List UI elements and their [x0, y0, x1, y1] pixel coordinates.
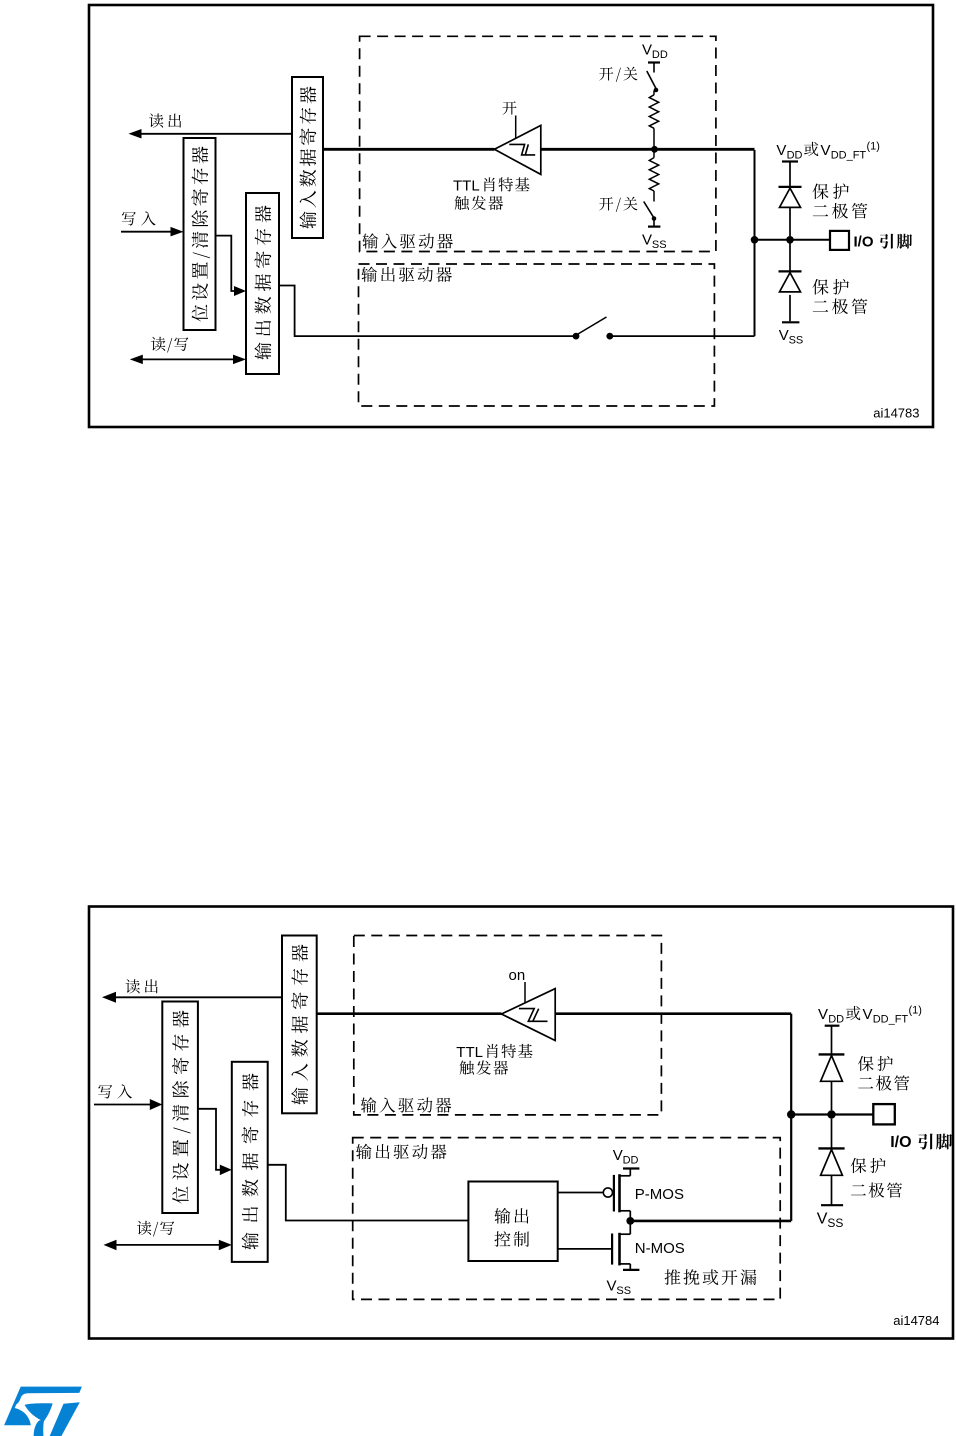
wire: schmitt trigger output to right vertical (thick) (top): [541, 148, 755, 151]
svg-text:DD: DD: [787, 149, 803, 161]
node: input line / resistor junction (top): [651, 146, 658, 153]
label: write in 写入 (top): [122, 211, 156, 225]
label: input driver 输入驱动器 (bottom): [361, 1097, 451, 1112]
label: input driver 输入驱动器 (top): [362, 233, 452, 248]
svg-text:V: V: [607, 1277, 617, 1294]
wire: I/O line to pin (bottom): [791, 1113, 873, 1115]
label: protection diode 保护二极管 (lower, top): [812, 279, 867, 314]
label: protection diode 保护二极管 (upper, bottom): [858, 1056, 909, 1091]
svg-text:V: V: [776, 142, 786, 159]
wire + arrow: write in (top): [121, 227, 184, 237]
wire: MOS output to right vertical (thick) (bottom): [630, 1220, 791, 1223]
label: push-pull or open-drain 推挽或开漏 (bottom): [665, 1269, 757, 1285]
wire + arrow: read out (top): [129, 129, 293, 139]
label: on/off 开/关 (pull-down switch, top): [599, 197, 637, 212]
power terminal VDD (diode chain, bottom): [825, 1026, 840, 1054]
power symbol VDD (pull-up, top): [642, 42, 668, 73]
power symbol VSS (N-MOS, bottom): [607, 1270, 640, 1297]
P-MOS gate bubble (bottom): [603, 1188, 612, 1197]
label: I/O pin I/O引脚 (top): [854, 234, 913, 251]
label: protection diode 保护二极管 (upper, top): [812, 183, 867, 218]
svg-text:DD_FT: DD_FT: [873, 1013, 909, 1025]
protection diode D2 (top): [779, 244, 802, 322]
block: output control 输出控制 (bottom): [468, 1182, 557, 1262]
wire + arrow: read out (bottom): [102, 992, 282, 1003]
I/O pin square (bottom): [873, 1104, 895, 1124]
wire: output data register to output control (bottom): [268, 1165, 469, 1221]
power label VDD or VDD_FT(1) (top): [776, 141, 880, 162]
register box: bit set/clear register 位设置/清除寄存器 (top): [184, 138, 216, 330]
protection diode D4 (bottom): [818, 1119, 844, 1205]
label: read/write 读/写 (top): [151, 337, 188, 353]
svg-text:TTL: TTL: [453, 177, 480, 194]
svg-text:on: on: [509, 967, 526, 984]
transistor Q2 N-MOS (bottom): [612, 1221, 630, 1270]
resistor R2 pull-down (top): [649, 149, 658, 201]
power symbol VSS (pull-down, top): [642, 219, 667, 251]
power label VDD or VDD_FT(1) (bottom): [818, 1005, 922, 1026]
wire: schmitt trigger output to right vertical (thick) (bottom): [555, 1012, 791, 1015]
svg-text:ai14784: ai14784: [893, 1313, 939, 1328]
node: diode chain junction (top): [786, 236, 794, 244]
wire: output control to P-MOS gate (bottom): [558, 1192, 604, 1194]
svg-text:(1): (1): [867, 141, 880, 153]
wire + arrow: write in (bottom): [94, 1099, 162, 1110]
dashed box: output driver (top): [359, 264, 715, 406]
svg-text:ai14783: ai14783: [873, 406, 919, 421]
power symbol VDD (P-MOS, bottom): [613, 1147, 640, 1169]
switch SW1 pull-up (top): [647, 71, 659, 92]
wire: bit-set register to output data register (bottom): [198, 1109, 232, 1175]
register box: bit set/clear register 位设置/清除寄存器 (bottom): [162, 1002, 198, 1214]
label: write in 写入 (bottom): [98, 1084, 132, 1098]
svg-text:I/O: I/O: [890, 1134, 911, 1151]
label: protection diode 保护二极管 (lower, bottom): [851, 1158, 902, 1198]
label: on/off 开/关 (pull-up switch, top): [599, 67, 637, 82]
svg-text:DD: DD: [623, 1155, 639, 1167]
schmitt trigger U2 (bottom): [501, 989, 555, 1041]
svg-text:P-MOS: P-MOS: [635, 1186, 684, 1203]
dashed box: output driver (bottom): [353, 1138, 781, 1300]
register box: input data register 输入数据寄存器 (top): [292, 77, 323, 238]
svg-text:V: V: [613, 1147, 623, 1164]
svg-text:V: V: [821, 142, 831, 159]
I/O pin square (top): [830, 231, 849, 250]
node: diode chain junction (bottom): [827, 1110, 835, 1118]
label: read/write 读/写 (bottom): [137, 1221, 174, 1237]
dashed box: input driver (bottom): [354, 936, 662, 1115]
wire: I/O line to pin (top): [755, 239, 831, 241]
svg-text:DD: DD: [652, 49, 668, 61]
wire: input data register to schmitt trigger (thick) (top): [323, 148, 494, 151]
label: on 开 (top): [503, 101, 517, 114]
label: output driver 输出驱动器 (top): [361, 267, 451, 282]
svg-text:V: V: [863, 1006, 873, 1023]
wire + double arrow: read/write (bottom): [104, 1240, 232, 1251]
schmitt trigger U1 (top): [494, 125, 540, 174]
register box: output data register 输出数据寄存器 (bottom): [232, 1062, 268, 1262]
node: bus / I/O line junction (top): [751, 236, 759, 244]
node: P-MOS/N-MOS drain junction (bottom): [626, 1217, 634, 1225]
dashed box: input driver (top): [360, 36, 716, 251]
ST Microelectronics logo: [4, 1387, 82, 1436]
svg-text:SS: SS: [652, 239, 667, 251]
figure frame (top diagram ai14783): [89, 5, 933, 427]
label: I/O pin I/O引脚 (bottom): [890, 1134, 952, 1152]
protection diode D1 (top): [779, 187, 802, 236]
wire: right vertical bus (top): [754, 150, 756, 336]
wire: output control to N-MOS gate (bottom): [558, 1248, 612, 1250]
label: read out 读出 (top): [149, 114, 181, 128]
wire: bit-set register to output data register (top): [216, 236, 247, 296]
wire: on label to schmitt trigger (top): [515, 116, 517, 139]
svg-text:SS: SS: [789, 334, 804, 346]
register box: input data register 输入数据寄存器 (bottom): [282, 936, 317, 1114]
svg-text:DD_FT: DD_FT: [831, 149, 867, 161]
svg-text:V: V: [642, 42, 652, 59]
power symbol VSS (diode chain, bottom): [817, 1205, 844, 1230]
svg-text:TTL: TTL: [456, 1044, 483, 1061]
figure frame (bottom diagram ai14784): [89, 907, 953, 1339]
svg-text:V: V: [817, 1210, 828, 1227]
power symbol VSS (diode chain, top): [779, 322, 804, 346]
wire + double arrow: read/write (top): [130, 355, 246, 365]
label: output driver 输出驱动器 (bottom): [356, 1144, 446, 1159]
svg-text:I/O: I/O: [854, 234, 874, 251]
svg-text:N-MOS: N-MOS: [635, 1240, 685, 1257]
svg-text:(1): (1): [909, 1005, 922, 1017]
resistor R1 pull-up (top): [649, 91, 658, 150]
svg-text:V: V: [642, 231, 652, 248]
wire: input data register to schmitt trigger (thick) (bottom): [317, 1012, 502, 1015]
svg-text:SS: SS: [827, 1216, 843, 1230]
label: TTL schmitt trigger TTL肖特基触发器 (top): [453, 177, 530, 210]
svg-text:SS: SS: [616, 1285, 631, 1297]
wire: output switch to right vertical (top): [610, 335, 755, 337]
label: TTL schmitt trigger TTL肖特基触发器 (bottom): [456, 1044, 532, 1075]
svg-text:V: V: [779, 327, 789, 344]
svg-text:V: V: [818, 1006, 828, 1023]
wire: on label to schmitt trigger (bottom): [524, 982, 526, 1003]
switch SW2 pull-down (top): [644, 202, 657, 221]
wire: right vertical bus (bottom): [790, 1014, 792, 1221]
label: read out 读出 (bottom): [126, 979, 158, 993]
svg-text:DD: DD: [828, 1013, 844, 1025]
node: bus / I/O line junction (bottom): [787, 1110, 795, 1118]
power terminal VDD (diode chain, top): [782, 162, 798, 187]
switch SW3 output driver (top): [573, 317, 614, 340]
register box: output data register 输出数据寄存器 (top): [246, 193, 279, 374]
wire: output data register to output switch (top): [279, 286, 576, 337]
transistor Q1 P-MOS (bottom): [614, 1169, 630, 1221]
protection diode D3 (bottom): [819, 1054, 845, 1110]
